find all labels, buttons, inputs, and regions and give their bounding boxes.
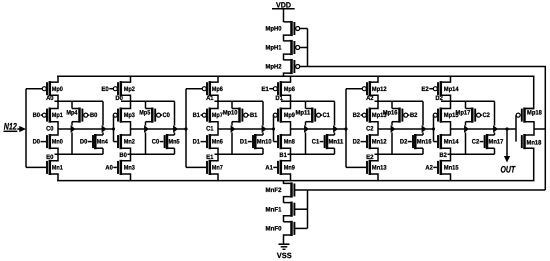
wire (25, 89, 27, 168)
svg-text:Mn2: Mn2 (124, 139, 135, 146)
transistor Mp14 (421, 76, 459, 101)
svg-text:Mn17: Mn17 (489, 139, 504, 146)
wire (291, 128, 347, 130)
transistor Mn11 (312, 134, 344, 149)
wire (71, 122, 75, 155)
transistor MpH1 (266, 40, 308, 60)
node N12 (4, 120, 18, 131)
svg-text:D1: D1 (193, 139, 201, 146)
transistor Mp7 (193, 101, 224, 129)
node D0 (115, 95, 123, 102)
node A1 (206, 95, 214, 102)
wire (333, 101, 337, 135)
svg-text:Mp3: Mp3 (124, 112, 135, 119)
wire (173, 101, 177, 135)
svg-text:Mn11: Mn11 (329, 139, 344, 146)
wire (273, 115, 275, 142)
svg-text:MnF0: MnF0 (266, 226, 282, 233)
wire (422, 101, 426, 135)
wire (283, 9, 285, 22)
svg-text:Mp12: Mp12 (372, 86, 387, 93)
svg-text:B1: B1 (193, 112, 201, 119)
svg-text:Mn13: Mn13 (372, 165, 387, 172)
wire (102, 101, 106, 135)
svg-text:B2: B2 (439, 152, 447, 159)
wire (145, 101, 147, 108)
svg-text:Mn18: Mn18 (527, 139, 542, 146)
transistor Mn16 (400, 134, 432, 149)
wire (464, 122, 468, 155)
transistor Mn9 (265, 154, 295, 180)
svg-text:Mn5: Mn5 (169, 139, 180, 146)
wire (494, 148, 496, 154)
svg-text:MnF1: MnF1 (266, 206, 282, 213)
node C1 (206, 125, 214, 132)
transistor MnF1 (266, 202, 308, 222)
wire (465, 101, 467, 108)
wire (218, 128, 274, 130)
transistor Mp17 (456, 108, 491, 123)
transistor Mp0 (26, 76, 63, 101)
wire (71, 101, 73, 108)
wire (307, 29, 309, 67)
node D1 (275, 95, 283, 102)
svg-text:N12: N12 (4, 120, 18, 131)
svg-text:Mp4: Mp4 (66, 110, 77, 117)
wire (308, 67, 546, 191)
wire (262, 101, 266, 135)
wire (493, 101, 497, 135)
svg-text:Mp9: Mp9 (284, 112, 295, 119)
transistor Mp13 (353, 101, 387, 129)
transistor Mn2 (114, 129, 136, 154)
wire (262, 148, 264, 154)
transistor Mn10 (240, 134, 272, 149)
transistor Mn18 (522, 129, 542, 149)
wire (334, 148, 336, 154)
svg-text:Mp5: Mp5 (139, 110, 150, 117)
svg-text:Mp16: Mp16 (383, 110, 398, 117)
svg-text:Mn1: Mn1 (52, 165, 63, 172)
wire (144, 122, 148, 155)
svg-text:A2: A2 (366, 95, 374, 102)
svg-text:D1: D1 (240, 139, 248, 146)
svg-text:A1: A1 (206, 95, 214, 102)
svg-text:Mn9: Mn9 (284, 165, 295, 172)
wire (17, 126, 26, 132)
wire (451, 128, 517, 130)
svg-text:B0: B0 (33, 112, 41, 119)
wire (441, 100, 495, 102)
transistor Mp5 (139, 108, 170, 123)
transistor Mp2 (101, 76, 135, 101)
svg-text:C1: C1 (323, 112, 331, 119)
wire (375, 153, 424, 155)
svg-text:MnF2: MnF2 (266, 187, 282, 194)
svg-text:D0: D0 (80, 139, 88, 146)
transistor MpH2 (266, 59, 308, 76)
svg-text:A0: A0 (46, 95, 54, 102)
svg-text:Mp17: Mp17 (456, 110, 471, 117)
wire (128, 153, 175, 155)
svg-text:Mp2: Mp2 (124, 86, 135, 93)
wire (57, 148, 534, 180)
svg-text:E1: E1 (261, 86, 269, 93)
svg-text:Mp0: Mp0 (52, 86, 63, 93)
wire (448, 153, 495, 155)
wire (422, 148, 424, 154)
svg-text:Mn16: Mn16 (417, 139, 432, 146)
svg-text:B0: B0 (119, 152, 127, 159)
svg-text:Mn3: Mn3 (124, 165, 135, 172)
svg-text:Mp10: Mp10 (223, 110, 238, 117)
transistor MpH0 (266, 21, 308, 41)
wire (121, 100, 175, 102)
transistor Mn15 (425, 154, 459, 180)
transistor Mn13 (346, 154, 387, 180)
transistor Mn6 (193, 129, 224, 154)
wire (534, 128, 545, 130)
svg-text:Mn15: Mn15 (444, 165, 459, 172)
svg-text:E0: E0 (101, 86, 109, 93)
wire (345, 89, 347, 168)
node C2 (366, 125, 374, 132)
transistor Mp18 (516, 108, 542, 130)
node junction (344, 127, 347, 130)
wire (57, 76, 534, 108)
transistor Mp11 (296, 108, 331, 123)
node junction (112, 127, 115, 130)
transistor Mn17 (472, 134, 504, 149)
node E1 (206, 154, 214, 161)
svg-text:Mp1: Mp1 (52, 112, 63, 119)
power VSS (277, 251, 292, 260)
wire (102, 148, 104, 154)
wire (391, 122, 395, 155)
wire (375, 100, 424, 102)
transistor Mp10 (223, 108, 258, 123)
wire (58, 128, 114, 130)
node OUT (501, 129, 516, 174)
svg-text:D0: D0 (33, 139, 41, 146)
wire (174, 148, 176, 154)
ground (279, 244, 290, 249)
svg-text:C2: C2 (483, 112, 491, 119)
svg-text:B0: B0 (90, 112, 98, 119)
svg-text:B2: B2 (410, 112, 418, 119)
transistor Mp4 (66, 108, 97, 123)
node E0 (46, 154, 54, 161)
wire (288, 153, 335, 155)
node E2 (366, 154, 374, 161)
svg-text:Mp18: Mp18 (527, 109, 542, 116)
node A2 (366, 95, 374, 102)
wire (55, 153, 104, 155)
node C0 (46, 125, 54, 132)
wire (131, 128, 187, 130)
node B1 (279, 152, 287, 159)
node junction (272, 127, 275, 130)
transistor Mn7 (186, 154, 223, 180)
wire (391, 101, 393, 108)
svg-text:B1: B1 (279, 152, 287, 159)
node D2 (435, 95, 443, 102)
svg-text:VSS: VSS (277, 251, 292, 260)
wire (215, 153, 264, 155)
svg-text:Mp6: Mp6 (212, 86, 223, 93)
svg-text:Mn6: Mn6 (212, 139, 223, 146)
transistor Mn1 (26, 154, 63, 180)
svg-text:C0: C0 (163, 112, 171, 119)
svg-text:MpH2: MpH2 (266, 64, 282, 71)
node junction (505, 127, 508, 130)
transistor MnF2 (266, 181, 308, 203)
svg-text:B2: B2 (353, 112, 361, 119)
power VDD (272, 0, 295, 9)
node A0 (46, 95, 54, 102)
wire (113, 115, 115, 142)
svg-text:OUT: OUT (501, 163, 516, 174)
svg-text:MpH1: MpH1 (266, 45, 282, 52)
wire (307, 190, 309, 228)
svg-text:C2: C2 (472, 139, 480, 146)
svg-text:B1: B1 (250, 112, 258, 119)
wire (305, 101, 307, 108)
svg-text:C0: C0 (152, 139, 160, 146)
transistor Mp12 (346, 76, 387, 101)
wire (433, 115, 435, 142)
svg-text:D2: D2 (400, 139, 408, 146)
svg-text:Mn14: Mn14 (444, 139, 459, 146)
svg-text:Mp7: Mp7 (212, 112, 223, 119)
node junction (432, 127, 435, 130)
transistor Mn5 (152, 134, 180, 149)
svg-text:Mn7: Mn7 (212, 165, 223, 172)
svg-text:C1: C1 (312, 139, 320, 146)
node junction (184, 127, 187, 130)
wire (281, 100, 335, 102)
transistor Mn8 (274, 129, 296, 154)
transistor Mn14 (434, 129, 459, 154)
svg-text:E2: E2 (421, 86, 429, 93)
svg-text:Mp14: Mp14 (444, 86, 459, 93)
transistor MnF0 (266, 221, 308, 244)
svg-text:Mn4: Mn4 (97, 139, 108, 146)
wire (515, 115, 517, 142)
transistor Mp8 (261, 76, 295, 101)
wire (308, 189, 546, 191)
svg-text:A2: A2 (425, 165, 433, 172)
svg-text:Mn10: Mn10 (257, 139, 272, 146)
wire (215, 100, 264, 102)
svg-text:Mn0: Mn0 (52, 139, 63, 146)
transistor Mp15 (433, 101, 459, 129)
transistor Mn4 (80, 134, 108, 149)
svg-text:C1: C1 (206, 125, 214, 132)
svg-text:A0: A0 (105, 165, 113, 172)
wire (185, 89, 187, 168)
svg-text:Mn8: Mn8 (284, 139, 295, 146)
node B2 (439, 152, 447, 159)
transistor Mn3 (105, 154, 135, 180)
wire (231, 122, 235, 155)
wire (304, 122, 308, 155)
wire (231, 101, 233, 108)
transistor Mn0 (33, 129, 64, 154)
transistor Mn12 (353, 129, 387, 154)
transistor Mp9 (273, 101, 295, 129)
svg-text:A1: A1 (265, 165, 273, 172)
node B0 (119, 152, 127, 159)
transistor Mp3 (113, 101, 135, 129)
svg-text:MpH0: MpH0 (266, 26, 282, 33)
transistor Mp1 (33, 101, 64, 129)
svg-text:Mn12: Mn12 (372, 139, 387, 146)
svg-text:Mp8: Mp8 (284, 86, 295, 93)
wire (55, 100, 104, 102)
transistor Mp16 (383, 108, 418, 123)
wire (378, 128, 434, 130)
svg-text:Mp11: Mp11 (296, 110, 311, 117)
svg-text:D2: D2 (353, 139, 361, 146)
svg-text:C2: C2 (366, 125, 374, 132)
transistor Mp6 (186, 76, 223, 101)
svg-text:C0: C0 (46, 125, 54, 132)
